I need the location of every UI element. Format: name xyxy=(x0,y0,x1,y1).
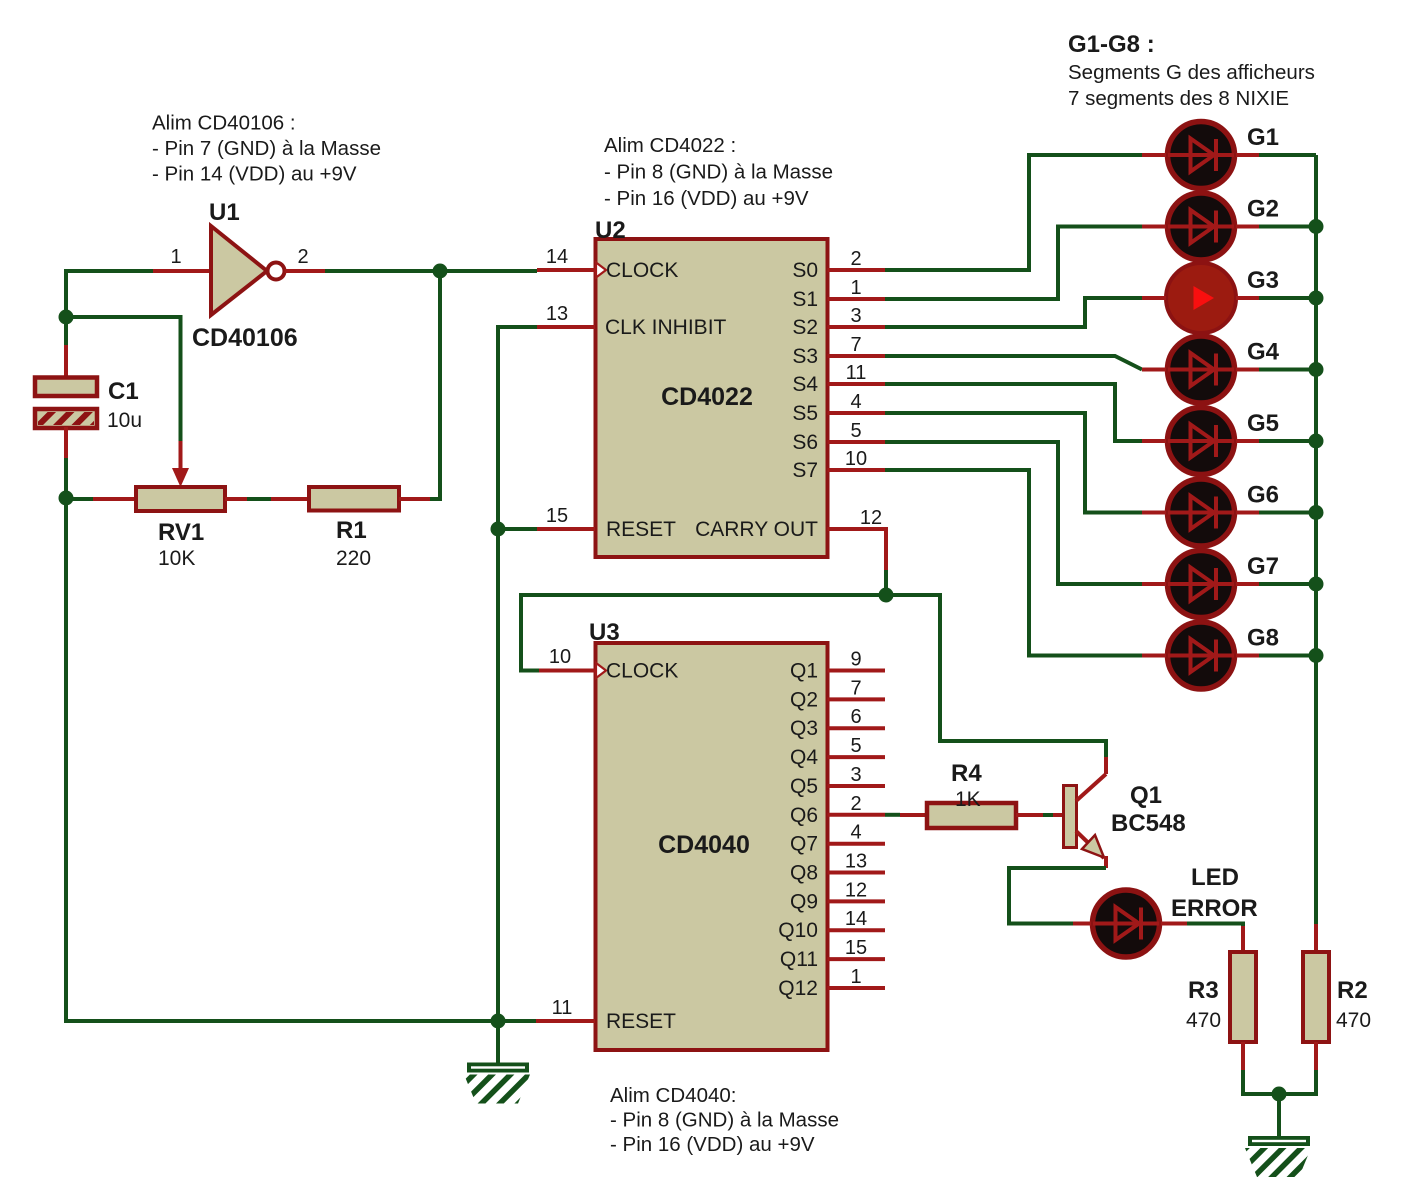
wire: R3 bottom to ground node xyxy=(1243,1070,1279,1094)
svg-text:7 segments des 8 NIXIE: 7 segments des 8 NIXIE xyxy=(1068,87,1289,110)
junction: C1 top node xyxy=(59,310,74,325)
svg-text:S1: S1 xyxy=(792,288,818,311)
svg-text:12: 12 xyxy=(860,507,882,529)
svg-text:G6: G6 xyxy=(1247,482,1279,509)
junction: U3 RESET node xyxy=(491,1014,506,1029)
wire: S1 to LED G2 xyxy=(885,227,1142,300)
wire: R4 to Q1 base xyxy=(1043,813,1064,817)
wire: LED G1 to anode bus xyxy=(1259,153,1316,157)
svg-text:14: 14 xyxy=(546,246,568,268)
svg-text:- Pin 8 (GND) à la Masse: - Pin 8 (GND) à la Masse xyxy=(610,1109,839,1132)
pin 4 (Q7) of U3 xyxy=(790,822,885,856)
annotation: Alim CD4040 text xyxy=(610,1084,839,1156)
resistor R1 xyxy=(271,487,430,570)
annotation: G1-G8 segments text xyxy=(1068,31,1315,110)
svg-text:9: 9 xyxy=(850,649,861,671)
junction: bus at G8 xyxy=(1309,648,1324,663)
svg-text:G1: G1 xyxy=(1247,124,1279,151)
annotation: Alim CD4022 text xyxy=(604,134,833,210)
svg-text:Q10: Q10 xyxy=(778,919,818,942)
svg-text:2: 2 xyxy=(850,793,861,815)
wire: LED ERROR to R3 xyxy=(1187,924,1243,931)
svg-text:Q2: Q2 xyxy=(790,688,818,711)
svg-text:Q5: Q5 xyxy=(790,775,818,798)
svg-text:CD40106: CD40106 xyxy=(192,324,298,352)
wire: LED G4 to anode bus xyxy=(1259,368,1316,372)
annotation: Alim CD40106 text xyxy=(152,112,381,186)
svg-text:11: 11 xyxy=(552,997,573,1019)
junction: node at U1 output xyxy=(433,264,448,279)
svg-text:Segments G des afficheurs: Segments G des afficheurs xyxy=(1068,61,1315,84)
IC U2 CD4022 xyxy=(595,217,828,557)
svg-text:Q1: Q1 xyxy=(790,660,818,683)
transistor Q1 BC548 xyxy=(1064,757,1186,868)
svg-text:CLK INHIBIT: CLK INHIBIT xyxy=(605,316,727,339)
svg-text:U2: U2 xyxy=(595,217,626,244)
svg-text:1K: 1K xyxy=(955,788,981,811)
pin 12 (Q9) of U3 xyxy=(790,879,885,913)
svg-text:ERROR: ERROR xyxy=(1171,895,1258,922)
svg-text:Q1: Q1 xyxy=(1130,782,1162,809)
wire: CLK INHIBIT and RESET rail xyxy=(498,327,537,1021)
pin 3 (Q5) of U3 xyxy=(790,764,885,798)
pin 4 (S5) of U2 xyxy=(792,391,885,425)
svg-text:5: 5 xyxy=(850,735,861,757)
svg-text:S4: S4 xyxy=(792,373,818,396)
svg-text:R4: R4 xyxy=(951,760,982,787)
junction: bus at G5 xyxy=(1309,434,1324,449)
pin 11 (S4) of U2 xyxy=(792,362,885,396)
svg-text:G8: G8 xyxy=(1247,625,1279,652)
wire: Q1 emitter to LED ERROR xyxy=(1009,868,1106,924)
wire: R2 bottom to ground node xyxy=(1279,1070,1316,1094)
wire: LED G2 to anode bus xyxy=(1259,225,1316,229)
pin 1 (Q12) of U3 xyxy=(778,966,885,1000)
ground symbol near U3 xyxy=(464,1063,530,1104)
svg-text:220: 220 xyxy=(336,547,371,570)
LED G5 xyxy=(1142,408,1279,475)
pin 15 (Q11) of U3 xyxy=(780,937,885,971)
svg-text:Q8: Q8 xyxy=(790,862,818,885)
wire: ground stem bottom right xyxy=(1277,1094,1281,1137)
pin 2 (Q6) of U3 xyxy=(790,793,885,827)
svg-text:CD4040: CD4040 xyxy=(658,831,750,859)
pin 2 of U1 xyxy=(285,246,326,271)
pin 15 (RESET) of U2 xyxy=(537,505,595,529)
svg-text:10u: 10u xyxy=(107,409,142,432)
pin 13 (Q8) of U3 xyxy=(790,851,885,885)
svg-text:U3: U3 xyxy=(589,619,620,646)
svg-text:C1: C1 xyxy=(108,378,139,405)
svg-text:1: 1 xyxy=(170,246,181,268)
pin 1 (S1) of U2 xyxy=(792,277,885,311)
junction: ground node xyxy=(1272,1087,1287,1102)
svg-text:Alim CD40106 :: Alim CD40106 : xyxy=(152,112,296,135)
svg-text:- Pin 16 (VDD) au +9V: - Pin 16 (VDD) au +9V xyxy=(604,187,809,210)
wire: U2 RESET branch xyxy=(498,527,537,531)
pin 11 (RESET) of U3 xyxy=(536,997,595,1021)
wire: carry node to U3 CLOCK xyxy=(521,595,886,671)
svg-text:10: 10 xyxy=(549,646,571,668)
wire: S7 to LED G8 xyxy=(885,470,1142,656)
svg-text:7: 7 xyxy=(850,334,861,356)
LED ERROR xyxy=(1073,864,1258,957)
svg-text:S2: S2 xyxy=(792,316,818,339)
wire: S5 to LED G6 xyxy=(885,413,1142,513)
svg-text:S7: S7 xyxy=(792,459,818,482)
svg-text:S3: S3 xyxy=(792,345,818,368)
wire: LED G5 to anode bus xyxy=(1259,439,1316,443)
svg-text:Q6: Q6 xyxy=(790,804,818,827)
svg-text:S5: S5 xyxy=(792,402,818,425)
svg-text:7: 7 xyxy=(850,677,861,699)
pin 2 (S0) of U2 xyxy=(792,248,885,282)
wire: feedback node down to R1 xyxy=(430,271,440,499)
LED G3 xyxy=(1142,263,1279,333)
wire: S0 to LED G1 xyxy=(885,155,1142,270)
svg-text:14: 14 xyxy=(845,908,867,930)
LED G4 xyxy=(1142,336,1280,403)
svg-text:RESET: RESET xyxy=(606,518,676,541)
pin 7 (S3) of U2 xyxy=(792,334,885,368)
svg-text:LED: LED xyxy=(1191,864,1239,891)
svg-text:G2: G2 xyxy=(1247,196,1279,223)
svg-text:R1: R1 xyxy=(336,517,367,544)
pin 7 (Q2) of U3 xyxy=(790,677,885,711)
svg-text:2: 2 xyxy=(850,248,861,270)
junction: bus at G7 xyxy=(1309,577,1324,592)
junction: bus at G4 xyxy=(1309,362,1324,377)
pin 10 (S7) of U2 xyxy=(792,448,885,482)
LED G8 xyxy=(1142,622,1279,689)
pin 6 (Q3) of U3 xyxy=(790,706,885,740)
wire: Q6 to R4 xyxy=(885,813,900,817)
svg-text:15: 15 xyxy=(845,937,867,959)
pin 5 (Q4) of U3 xyxy=(790,735,885,769)
svg-text:S6: S6 xyxy=(792,431,818,454)
wire: LED G7 to anode bus xyxy=(1259,582,1316,586)
svg-text:U1: U1 xyxy=(209,199,240,226)
svg-text:RESET: RESET xyxy=(606,1010,676,1033)
svg-text:- Pin 7 (GND) à la Masse: - Pin 7 (GND) à la Masse xyxy=(152,137,381,160)
svg-text:Q9: Q9 xyxy=(790,890,818,913)
wire: left rail C1 to U3 RESET xyxy=(66,498,536,1021)
pin 14 (CLOCK) of U2 xyxy=(537,246,595,270)
svg-text:4: 4 xyxy=(850,391,861,413)
junction: carry node xyxy=(879,588,894,603)
svg-text:R3: R3 xyxy=(1188,977,1219,1004)
svg-text:G1-G8 :: G1-G8 : xyxy=(1068,31,1155,58)
svg-text:Alim CD4022 :: Alim CD4022 : xyxy=(604,134,736,157)
junction: bus at G3 xyxy=(1309,291,1324,306)
wire: anode bus xyxy=(1314,155,1318,924)
pin 10 (CLOCK) of U3 xyxy=(539,646,595,671)
svg-text:R2: R2 xyxy=(1337,977,1368,1004)
svg-text:G3: G3 xyxy=(1247,267,1279,294)
svg-text:470: 470 xyxy=(1336,1009,1371,1032)
pin 3 (S2) of U2 xyxy=(792,305,885,339)
junction: bus at G2 xyxy=(1309,219,1324,234)
IC U3 CD4040 xyxy=(589,619,828,1050)
wire: ground stem near U3 xyxy=(496,1021,500,1063)
svg-text:13: 13 xyxy=(546,303,568,325)
resistor R2 xyxy=(1303,924,1371,1070)
wire: S3 to LED G4 xyxy=(885,356,1142,370)
svg-text:3: 3 xyxy=(850,305,861,327)
pin 13 (CLK INHIBIT) of U2 xyxy=(537,303,595,327)
svg-text:CD4022: CD4022 xyxy=(661,383,753,411)
svg-text:G7: G7 xyxy=(1247,553,1279,580)
junction: U2 RESET node xyxy=(491,522,506,537)
wire: LED G6 to anode bus xyxy=(1259,511,1316,515)
svg-text:11: 11 xyxy=(846,362,867,384)
svg-text:BC548: BC548 xyxy=(1111,810,1186,837)
wire: U1 output to U2 CLOCK xyxy=(325,269,537,273)
svg-text:3: 3 xyxy=(850,764,861,786)
junction: C1 bottom node xyxy=(59,491,74,506)
svg-text:1: 1 xyxy=(850,277,861,299)
svg-text:Alim CD4040:: Alim CD4040: xyxy=(610,1084,736,1107)
wire: LED G3 to anode bus xyxy=(1259,296,1316,300)
LED G2 xyxy=(1142,193,1279,260)
svg-text:4: 4 xyxy=(850,822,861,844)
wire: S2 to LED G3 xyxy=(885,298,1142,327)
svg-text:12: 12 xyxy=(845,879,867,901)
svg-text:G4: G4 xyxy=(1247,339,1280,366)
svg-text:15: 15 xyxy=(546,505,568,527)
svg-text:Q11: Q11 xyxy=(780,948,818,971)
wiper arrow of RV1 xyxy=(172,441,189,487)
capacitor C1 xyxy=(35,317,142,498)
svg-text:5: 5 xyxy=(850,420,861,442)
svg-text:- Pin 14 (VDD) au +9V: - Pin 14 (VDD) au +9V xyxy=(152,163,357,186)
resistor R4 xyxy=(900,760,1043,828)
wire: S4 to LED G5 xyxy=(885,384,1142,441)
resistor R3 xyxy=(1186,926,1256,1070)
junction: bus at G6 xyxy=(1309,505,1324,520)
svg-text:Q4: Q4 xyxy=(790,746,818,769)
svg-text:G5: G5 xyxy=(1247,410,1279,437)
svg-text:Q3: Q3 xyxy=(790,717,818,740)
svg-text:470: 470 xyxy=(1186,1009,1221,1032)
svg-text:13: 13 xyxy=(845,851,867,873)
wire: carry node to Q1 collector xyxy=(886,595,1106,757)
svg-text:CLOCK: CLOCK xyxy=(606,660,678,683)
wire: C1 bottom node to RV1 xyxy=(66,497,93,501)
ground symbol bottom right xyxy=(1245,1136,1311,1177)
wire: LED G8 to anode bus xyxy=(1259,654,1316,658)
svg-text:- Pin 8 (GND) à la Masse: - Pin 8 (GND) à la Masse xyxy=(604,161,833,184)
inverter U1 (CD40106) xyxy=(192,199,298,352)
wire: S6 to LED G7 xyxy=(885,442,1142,584)
pin 14 (Q10) of U3 xyxy=(778,908,885,942)
svg-text:RV1: RV1 xyxy=(158,519,204,546)
svg-text:10K: 10K xyxy=(158,547,195,570)
potentiometer RV1 xyxy=(93,487,247,570)
svg-text:10: 10 xyxy=(845,448,867,470)
svg-text:6: 6 xyxy=(850,706,861,728)
svg-text:CARRY OUT: CARRY OUT xyxy=(695,518,818,541)
svg-text:S0: S0 xyxy=(792,259,818,282)
svg-text:1: 1 xyxy=(850,966,861,988)
pin 5 (S6) of U2 xyxy=(792,420,885,454)
svg-text:CLOCK: CLOCK xyxy=(606,259,678,282)
LED G6 xyxy=(1142,479,1279,546)
svg-text:Q7: Q7 xyxy=(790,833,818,856)
pin 1 of U1 xyxy=(153,246,211,271)
svg-text:2: 2 xyxy=(297,246,308,268)
wire: RV1 to R1 xyxy=(247,497,271,501)
wire: C1 top node to U1 input xyxy=(66,271,153,314)
LED G1 xyxy=(1142,122,1279,189)
pin 12 (CARRY OUT) of U2 xyxy=(828,507,887,570)
wire: C1 top node to RV1 wiper xyxy=(66,317,181,441)
svg-text:- Pin 16 (VDD) au +9V: - Pin 16 (VDD) au +9V xyxy=(610,1133,815,1156)
pin 9 (Q1) of U3 xyxy=(790,649,885,683)
wire: carry vertical xyxy=(884,570,888,595)
svg-text:Q12: Q12 xyxy=(778,977,818,1000)
LED G7 xyxy=(1142,551,1279,618)
